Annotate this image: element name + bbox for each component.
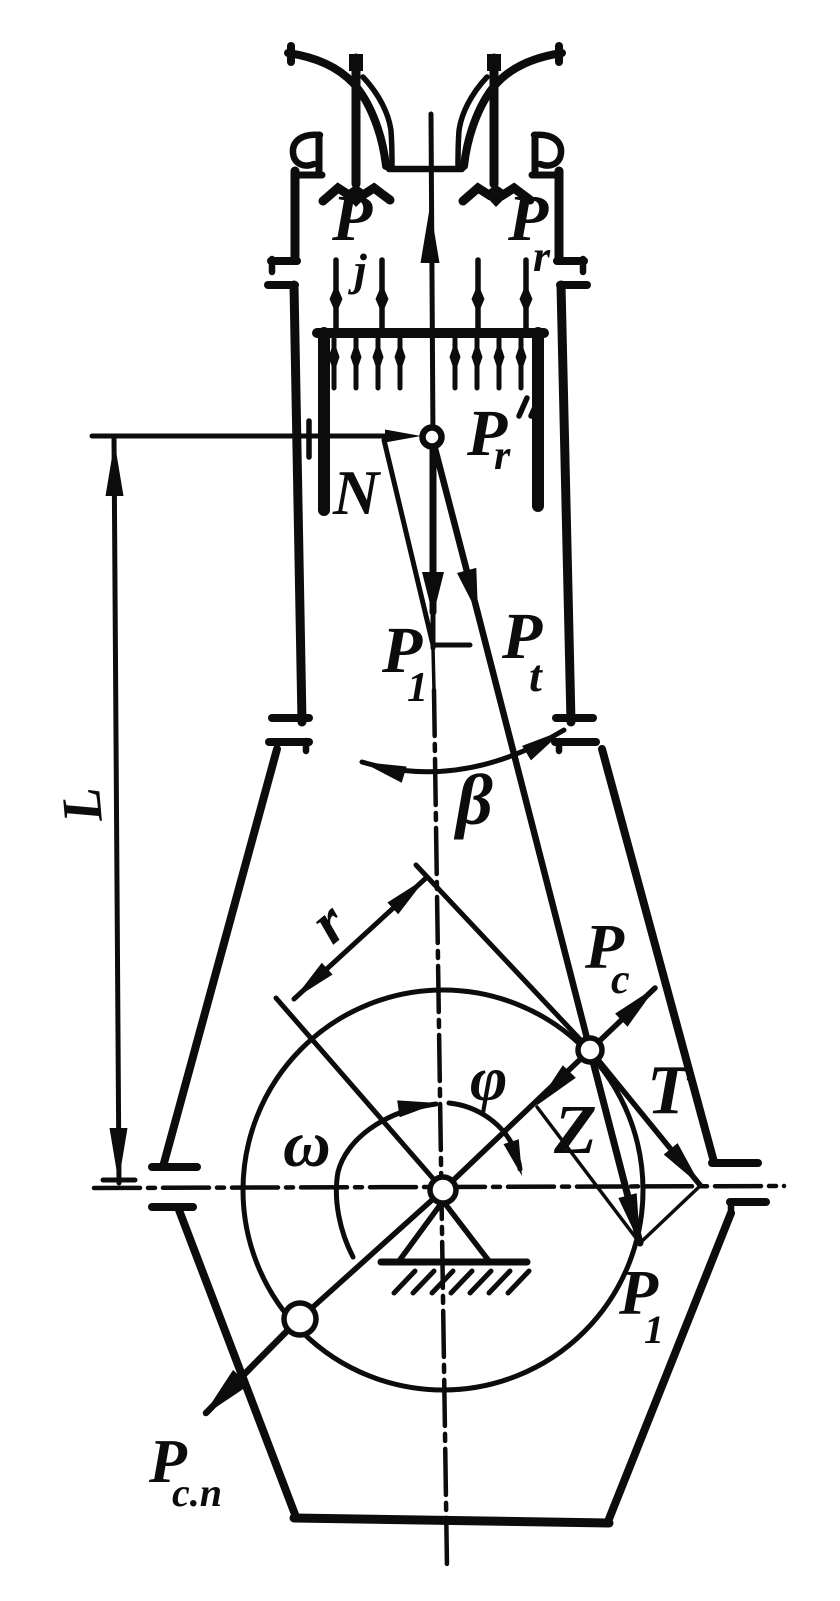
svg-text:β: β bbox=[453, 760, 493, 840]
svg-text:1: 1 bbox=[407, 665, 428, 711]
svg-text:L: L bbox=[50, 785, 115, 825]
svg-text:φ: φ bbox=[470, 1043, 507, 1114]
svg-text:c: c bbox=[611, 957, 630, 1003]
svg-text:r: r bbox=[533, 232, 551, 281]
svg-text:c.n: c.n bbox=[172, 1470, 222, 1515]
svg-text:T: T bbox=[647, 1052, 693, 1129]
svg-text:N: N bbox=[332, 457, 382, 528]
svg-text:1: 1 bbox=[644, 1307, 664, 1352]
svg-text:r: r bbox=[494, 433, 511, 479]
svg-text:ω: ω bbox=[283, 1108, 331, 1181]
svg-text:Z: Z bbox=[553, 1092, 597, 1169]
svg-text:t: t bbox=[529, 650, 543, 701]
